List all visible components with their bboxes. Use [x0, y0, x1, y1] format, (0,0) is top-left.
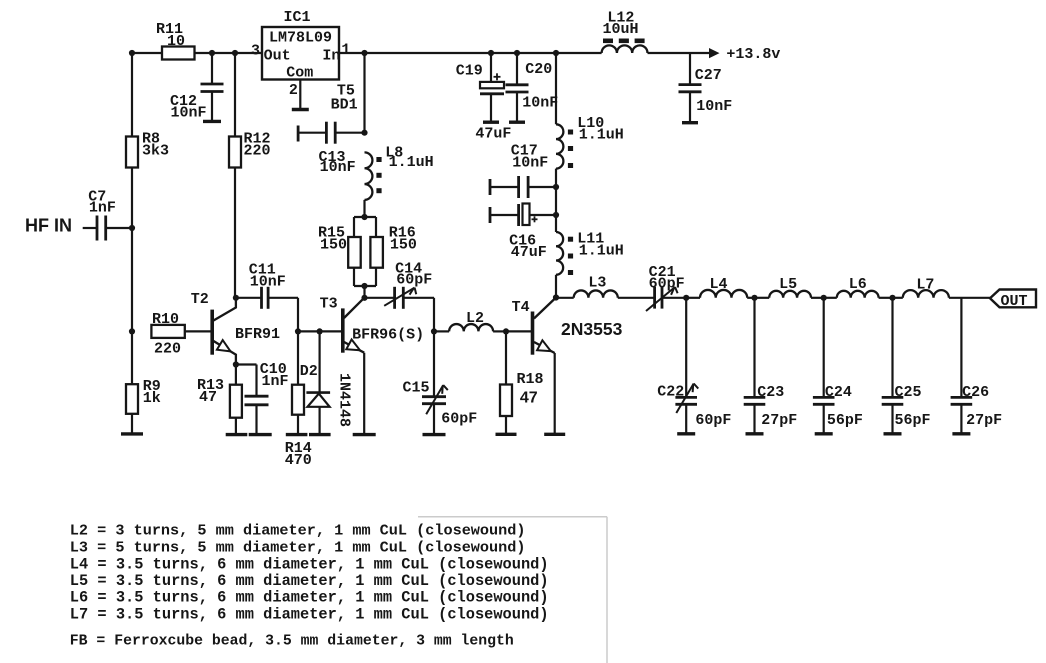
capacitor C7 1nF input coupling — [83, 189, 132, 241]
inductor L3 — [556, 275, 655, 298]
svg-text:10nF: 10nF — [696, 98, 732, 115]
node C7 junction — [129, 225, 135, 231]
svg-text:C25: C25 — [895, 384, 922, 401]
svg-text:10nF: 10nF — [512, 155, 548, 172]
svg-text:L3: L3 — [588, 275, 606, 292]
svg-text:1k: 1k — [143, 390, 161, 407]
svg-text:27pF: 27pF — [761, 412, 797, 429]
svg-text:Com: Com — [286, 65, 313, 82]
svg-text:1.1uH: 1.1uH — [579, 126, 624, 143]
node D2 junction — [317, 328, 323, 334]
svg-text:R18: R18 — [517, 371, 544, 388]
svg-text:470: 470 — [285, 452, 312, 469]
resistor R15 150 — [318, 217, 376, 286]
wire R14 to ground — [297, 415, 299, 435]
node rail-L10 junction — [553, 50, 559, 56]
svg-text:L7: L7 — [916, 277, 934, 294]
svg-text:BFR91: BFR91 — [235, 326, 280, 343]
svg-text:10uH: 10uH — [603, 21, 639, 38]
svg-text:L4 = 3.5 turns, 6 mm diameter,: L4 = 3.5 turns, 6 mm diameter, 1 mm CuL … — [70, 556, 549, 574]
svg-text:L6: L6 — [849, 276, 867, 293]
wire rail down to C13 node — [363, 53, 365, 133]
svg-text:Out: Out — [264, 48, 291, 65]
wire L2 node to T4 base — [506, 330, 533, 332]
wire R10 to T2 base — [185, 330, 212, 332]
wire R15R16 bottom to T3 collector node — [363, 286, 365, 298]
transistor T2 BFR91 — [212, 298, 236, 365]
node R15R16 top junction — [361, 214, 367, 220]
svg-text:T3: T3 — [320, 296, 338, 313]
capacitor C25 56pF — [882, 298, 931, 434]
svg-text:L2 = 3 turns, 5 mm diameter, 1: L2 = 3 turns, 5 mm diameter, 1 mm CuL (c… — [70, 521, 526, 539]
capacitor C22 60pF variable — [657, 298, 731, 434]
wire C14 to L2 node — [433, 298, 435, 332]
scan artifact lines — [418, 517, 607, 663]
capacitor C19 47uF electrolytic — [456, 53, 512, 143]
node C24 junction — [821, 295, 827, 301]
svg-text:47uF: 47uF — [511, 244, 547, 261]
capacitor C13 10nF feedthrough — [298, 122, 364, 176]
svg-text:47uF: 47uF — [475, 126, 511, 143]
svg-text:150: 150 — [390, 237, 417, 254]
capacitor C26 27pF — [951, 298, 1003, 434]
svg-text:1nF: 1nF — [89, 200, 116, 217]
node R15R16 bottom junction — [361, 283, 367, 289]
capacitor C10 1nF — [236, 361, 289, 435]
wire R8 to R10 node — [131, 168, 133, 385]
ground C12 — [203, 120, 221, 123]
inductor L10 1.1uH — [556, 115, 624, 169]
svg-text:10nF: 10nF — [250, 274, 286, 291]
wire rail R11 to IC1 pin3 — [195, 52, 263, 54]
svg-text:L7 = 3.5 turns, 6 mm diameter,: L7 = 3.5 turns, 6 mm diameter, 1 mm CuL … — [70, 606, 549, 624]
svg-text:R10: R10 — [152, 311, 179, 328]
ground R13 — [226, 433, 248, 436]
node OUT terminal tag — [990, 290, 1036, 311]
capacitor C23 27pF — [744, 298, 798, 434]
wire base line down to R14 — [297, 331, 299, 384]
capacitor C14 60pF variable — [365, 261, 435, 309]
capacitor C16 47uF electrolytic feedthrough — [490, 204, 556, 262]
svg-text:47: 47 — [520, 390, 538, 407]
svg-text:C20: C20 — [525, 61, 552, 78]
node T2 emitter junction — [233, 361, 239, 367]
svg-text:56pF: 56pF — [895, 412, 931, 429]
svg-text:BFR96(S): BFR96(S) — [352, 327, 424, 344]
svg-text:C24: C24 — [825, 384, 852, 401]
wire C16 node to L11 — [555, 215, 557, 232]
inductor L11 1.1uH — [556, 231, 624, 276]
wire L8 to R15R16 top — [363, 200, 365, 217]
power +13.8v arrow terminal — [709, 48, 720, 58]
ground C10 — [249, 433, 272, 436]
svg-text:2N3553: 2N3553 — [561, 319, 623, 339]
capacitor C20 10nF — [506, 53, 559, 122]
svg-text:+13.8v: +13.8v — [726, 46, 780, 63]
svg-text:150: 150 — [320, 237, 347, 254]
svg-text:HF IN: HF IN — [25, 216, 72, 236]
node T3 collector junction — [361, 295, 367, 301]
resistor R13 — [230, 385, 242, 418]
capacitor C15 60pF variable — [403, 331, 478, 434]
wire rail down to R8 — [131, 53, 133, 137]
svg-text:3k3: 3k3 — [142, 143, 169, 160]
ground C25 — [884, 432, 902, 435]
ground C24 — [815, 432, 833, 435]
svg-text:FB = Ferroxcube bead, 3.5 mm d: FB = Ferroxcube bead, 3.5 mm diameter, 3… — [70, 633, 514, 649]
wire T2 emitter to R13 — [235, 365, 237, 385]
wire R12 to T2 collector node — [234, 168, 236, 298]
svg-text:10nF: 10nF — [171, 104, 207, 121]
inductor L6 — [824, 276, 893, 298]
capacitor C11 10nF — [236, 261, 298, 309]
inductor L12 10uH — [602, 10, 648, 54]
svg-text:T2: T2 — [191, 291, 209, 308]
svg-text:L5: L5 — [779, 276, 797, 293]
capacitor C27 10nF — [679, 53, 733, 123]
ground C26 — [952, 432, 970, 435]
ground C19 — [483, 120, 499, 123]
ground C20 — [509, 120, 525, 123]
svg-text:C19: C19 — [456, 63, 483, 80]
svg-text:1.1uH: 1.1uH — [389, 154, 434, 171]
node R10 junction — [129, 328, 135, 334]
svg-text:L5 = 3.5 turns, 6 mm diameter,: L5 = 3.5 turns, 6 mm diameter, 1 mm CuL … — [70, 572, 549, 590]
wire rail left segment — [132, 52, 162, 54]
svg-text:10: 10 — [167, 33, 185, 50]
node C23 junction — [751, 295, 757, 301]
wire L12 to +13.8v arrow — [648, 52, 710, 54]
node C25 junction — [889, 295, 895, 301]
ground C15 — [423, 433, 446, 436]
wire T4 emitter to ground — [554, 353, 556, 434]
node T2 collector junction — [233, 295, 239, 301]
svg-text:LM78L09: LM78L09 — [269, 30, 332, 47]
ground R14 — [286, 433, 308, 436]
node T4 base junction — [503, 328, 509, 334]
svg-text:1.1uH: 1.1uH — [579, 242, 624, 259]
ground R9 — [121, 432, 143, 435]
svg-text:L6 = 3.5 turns, 6 mm diameter,: L6 = 3.5 turns, 6 mm diameter, 1 mm CuL … — [70, 589, 549, 607]
wire L11 to T4 collector node — [555, 275, 557, 298]
svg-text:In: In — [322, 48, 340, 65]
ground C27 — [682, 121, 698, 124]
svg-text:L3 = 5 turns, 5 mm diameter, 1: L3 = 5 turns, 5 mm diameter, 1 mm CuL (c… — [70, 539, 526, 557]
wire R18 to ground — [505, 416, 507, 434]
svg-text:L4: L4 — [710, 276, 728, 293]
svg-text:BD1: BD1 — [331, 97, 358, 114]
resistor R16 150 — [354, 217, 417, 286]
wire rail down to R12 — [234, 53, 236, 137]
node rail-L8 branch junction — [361, 50, 367, 56]
svg-text:C26: C26 — [962, 384, 989, 401]
ground C22 — [677, 432, 695, 435]
node C16 junction — [553, 212, 559, 218]
svg-text:C22: C22 — [657, 384, 684, 401]
node L2-C15 junction — [431, 328, 437, 334]
wire T3 emitter to ground — [363, 353, 365, 435]
svg-text:D2: D2 — [300, 363, 318, 380]
node C17 junction — [553, 184, 559, 190]
node rail-C20 junction — [514, 50, 520, 56]
node rail-C19 junction — [488, 50, 494, 56]
svg-text:10nF: 10nF — [320, 159, 356, 176]
svg-text:60pF: 60pF — [695, 412, 731, 429]
node C22 junction — [683, 295, 689, 301]
svg-text:C27: C27 — [695, 67, 722, 84]
resistor R10 — [151, 325, 184, 338]
wire C17 node to C16 node — [555, 187, 557, 215]
svg-text:C15: C15 — [403, 380, 430, 397]
wire L7 to OUT tag — [949, 297, 990, 299]
resistor R12 — [229, 137, 241, 168]
capacitor C24 56pF — [813, 298, 863, 434]
wire rail IC1 pin1 to L12 — [339, 52, 602, 54]
svg-text:1: 1 — [341, 41, 350, 58]
diode D2 1N4148 — [300, 331, 353, 434]
svg-text:C23: C23 — [757, 384, 784, 401]
wire T3 base line — [298, 330, 343, 332]
wire C11 down to T3 base line — [297, 298, 299, 332]
svg-text:IC1: IC1 — [284, 9, 311, 26]
svg-text:3: 3 — [251, 42, 260, 59]
svg-text:L2: L2 — [466, 310, 484, 327]
capacitor C17 10nF feedthrough — [490, 143, 556, 199]
transistor T3 BFR96(S) — [343, 298, 364, 353]
resistor R9 — [126, 384, 138, 414]
coil winding notes text block — [70, 521, 549, 649]
wire L10 to C17 node — [555, 169, 557, 187]
node rail-R12 junction — [232, 50, 238, 56]
node T4 collector junction — [553, 294, 559, 300]
wire R9 to ground — [131, 414, 133, 434]
resistor R14 — [292, 385, 304, 415]
ground D2 — [309, 433, 331, 436]
svg-text:T4: T4 — [512, 299, 530, 316]
svg-text:60pF: 60pF — [649, 276, 685, 293]
svg-text:2: 2 — [289, 82, 298, 99]
node C13 junction — [361, 130, 367, 136]
svg-text:60pF: 60pF — [441, 411, 477, 428]
node rail-C12 junction — [209, 50, 215, 56]
resistor R18 — [500, 385, 512, 417]
svg-text:OUT: OUT — [1001, 293, 1028, 310]
svg-text:60pF: 60pF — [396, 272, 432, 289]
op-amp IC1 LM78L09 regulator box — [262, 9, 340, 82]
wire T4 base to R18 — [505, 331, 507, 384]
wire IC1 pin2 stub — [299, 80, 301, 110]
resistor R11 — [162, 47, 195, 60]
ground T3 emitter — [353, 433, 376, 436]
node rail-R8 junction — [129, 50, 135, 56]
ground IC1 pin2 — [292, 108, 309, 111]
inductor L2 — [434, 310, 506, 331]
svg-text:1N4148: 1N4148 — [335, 373, 352, 427]
ground T4 emitter — [544, 433, 565, 436]
inductor L7 — [893, 277, 949, 298]
capacitor C12 10nF — [170, 53, 224, 121]
wire rail down to L10 — [555, 53, 557, 124]
wire R13 to ground — [235, 418, 237, 435]
inductor L4 — [686, 276, 754, 298]
inductor L8 1.1uH — [365, 145, 434, 200]
svg-text:220: 220 — [244, 143, 271, 160]
transistor T4 2N3553 — [533, 298, 557, 355]
inductor L5 — [755, 276, 824, 298]
svg-text:47: 47 — [199, 389, 217, 406]
ground C23 — [746, 432, 764, 435]
svg-text:220: 220 — [154, 341, 181, 358]
svg-text:10nF: 10nF — [522, 95, 558, 112]
node R14 junction — [295, 328, 301, 334]
svg-text:56pF: 56pF — [827, 412, 863, 429]
capacitor C21 60pF variable — [646, 264, 686, 311]
ground R18 — [496, 433, 517, 436]
svg-text:27pF: 27pF — [966, 412, 1002, 429]
svg-text:1nF: 1nF — [262, 373, 289, 390]
resistor R8 — [126, 137, 138, 168]
